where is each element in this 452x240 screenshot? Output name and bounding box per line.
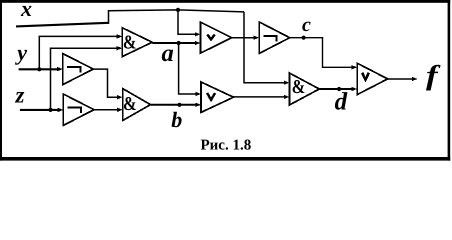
node d dot <box>337 87 341 91</box>
svg-text:a: a <box>162 40 174 67</box>
svg-text:c: c <box>302 14 311 36</box>
wire: NOT1 output to AND2 top input <box>93 69 117 97</box>
NOT symbol in U2 <box>67 67 81 73</box>
wire: y branch up to AND1 top input <box>39 36 117 69</box>
NOT gate U3 triangle <box>63 94 94 125</box>
node a junction <box>177 41 181 45</box>
wire: NOT2 output to AND2 bottom input <box>94 109 117 111</box>
svg-text:z: z <box>15 83 25 108</box>
wire: node d line AND3 out to OR3 bottom input <box>319 88 352 90</box>
arrow into OR3 bottom <box>352 87 358 91</box>
arrow into AND3 bottom <box>284 95 290 99</box>
OR symbol in U5 <box>207 35 214 40</box>
OR symbol in U6 <box>207 93 215 100</box>
wire: x riser and top run <box>109 10 245 24</box>
node x-branch junction <box>176 8 180 12</box>
AND gate U4 triangle <box>123 89 151 121</box>
wire: input x stub <box>16 23 109 27</box>
arrow into OR1 top <box>195 32 201 36</box>
arrow into AND2 bottom <box>117 108 123 112</box>
node z junction <box>48 108 52 112</box>
arrow into OR2 bottom <box>195 103 201 107</box>
border frame top bar <box>0 0 450 3</box>
arrow into NOT1 <box>57 67 63 71</box>
svg-text:d: d <box>335 89 348 116</box>
node b dot <box>177 103 181 107</box>
svg-text:b: b <box>171 107 182 132</box>
AND gate U8 triangle <box>289 73 319 105</box>
arrow into AND1 top <box>117 34 123 38</box>
border frame right bar <box>448 0 451 161</box>
border frame left bar <box>0 0 2 161</box>
arrow into OR2 top <box>195 92 201 96</box>
wire: x vertical down to AND3 top input <box>244 12 284 83</box>
NOT symbol in U7 <box>263 36 276 42</box>
OR symbol in U9 <box>362 73 369 80</box>
arrow into OR3 top <box>352 65 358 69</box>
svg-text:&: & <box>123 33 137 54</box>
OR gate U6 triangle <box>201 82 234 112</box>
wire: node b line AND2 out to OR2 bottom input <box>151 104 197 106</box>
wire: a branch down to OR2 top input <box>179 43 196 94</box>
OR gate U5 triangle <box>200 22 231 53</box>
wire: node c line NOT3 out, down, to OR3 top input <box>290 38 352 68</box>
svg-text:x: x <box>20 0 32 21</box>
arrow into OR1 bottom <box>195 41 201 45</box>
arrow into NOT2 <box>58 108 64 112</box>
node c dot <box>302 36 306 40</box>
svg-text:&: & <box>292 77 306 98</box>
arrow on f output <box>412 77 418 81</box>
wire: node a line AND1 out to OR1 bottom input <box>152 42 196 44</box>
arrow into NOT3 <box>254 36 260 40</box>
NOT symbol in U3 <box>68 108 82 114</box>
arrow into AND1 bottom <box>117 46 123 50</box>
svg-text:&: & <box>123 94 137 115</box>
arrow into AND2 top <box>117 95 123 99</box>
border frame bottom bar <box>0 157 450 161</box>
wire: OR1 output to NOT3 input <box>232 37 254 39</box>
wire: input y stub <box>19 68 58 70</box>
node y junction <box>37 67 41 71</box>
AND gate U1 triangle <box>122 28 152 57</box>
OR gate U9 triangle <box>357 63 388 94</box>
wire: z branch up to AND1 bottom input <box>51 48 118 110</box>
wire: x branch down to OR1 top input <box>178 10 195 34</box>
wire: input z stub <box>20 109 58 111</box>
NOT gate U2 triangle <box>63 54 94 85</box>
arrow into AND3 top <box>284 81 290 85</box>
wire: OR3 output to f <box>388 78 413 80</box>
NOT gate U7 triangle <box>259 22 290 54</box>
wire: OR2 output to AND3 bottom input <box>234 96 285 98</box>
svg-text:Рис. 1.8: Рис. 1.8 <box>201 138 252 154</box>
